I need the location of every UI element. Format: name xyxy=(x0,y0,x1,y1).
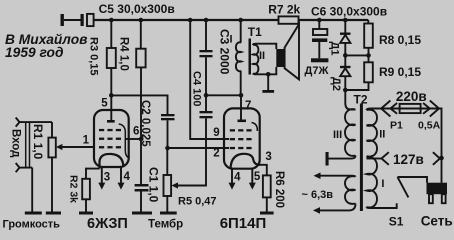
svg-text:C4 100: C4 100 xyxy=(191,71,203,106)
svg-text:Сеть: Сеть xyxy=(421,214,453,229)
svg-text:R5 0,47: R5 0,47 xyxy=(178,196,217,208)
svg-text:R7 2k: R7 2k xyxy=(268,2,300,16)
svg-text:III: III xyxy=(333,129,342,141)
svg-text:6: 6 xyxy=(133,125,139,137)
svg-text:R2 3k: R2 3k xyxy=(68,175,80,203)
svg-text:Громкость: Громкость xyxy=(3,218,61,230)
svg-text:I: I xyxy=(381,178,384,190)
svg-text:Т1: Т1 xyxy=(248,25,262,39)
svg-text:Р1: Р1 xyxy=(390,120,403,132)
svg-text:R1 1,0: R1 1,0 xyxy=(31,124,45,160)
svg-text:Т2: Т2 xyxy=(354,93,368,107)
svg-text:R9 0,15: R9 0,15 xyxy=(379,65,421,79)
svg-text:6ЖЗП: 6ЖЗП xyxy=(87,216,128,232)
svg-text:Д1: Д1 xyxy=(329,42,341,56)
svg-text:5: 5 xyxy=(101,98,108,110)
svg-text:С1 1,0: С1 1,0 xyxy=(147,167,161,203)
svg-text:S1: S1 xyxy=(389,215,404,229)
svg-text:9: 9 xyxy=(213,127,219,139)
svg-text:1: 1 xyxy=(83,135,90,147)
svg-text:127в: 127в xyxy=(393,152,424,167)
svg-text:~ 6,3в: ~ 6,3в xyxy=(302,189,334,201)
svg-text:C2 0,025: C2 0,025 xyxy=(139,100,151,147)
svg-text:R4 1,0: R4 1,0 xyxy=(118,37,130,71)
svg-text:II: II xyxy=(379,129,385,141)
svg-text:Тембр: Тембр xyxy=(148,218,183,230)
svg-text:С5 30,0х300в: С5 30,0х300в xyxy=(99,2,175,16)
svg-text:6П14П: 6П14П xyxy=(220,215,267,232)
svg-text:II: II xyxy=(259,50,265,62)
svg-text:R6 200: R6 200 xyxy=(273,171,285,208)
svg-text:7: 7 xyxy=(245,100,251,112)
svg-text:4: 4 xyxy=(124,171,131,183)
svg-text:C3 2000: C3 2000 xyxy=(218,29,232,75)
svg-text:3: 3 xyxy=(104,172,110,184)
svg-text:2: 2 xyxy=(213,147,219,159)
svg-text:R8 0,15: R8 0,15 xyxy=(379,33,421,47)
svg-text:5: 5 xyxy=(254,171,261,183)
svg-text:3: 3 xyxy=(265,151,271,163)
svg-text:1959 год: 1959 год xyxy=(5,45,64,60)
svg-text:R3 0,15: R3 0,15 xyxy=(88,37,100,76)
svg-text:4: 4 xyxy=(234,172,241,184)
svg-text:С6 30,0х300в: С6 30,0х300в xyxy=(311,5,387,19)
svg-text:Вход: Вход xyxy=(10,129,22,158)
svg-text:0,5А: 0,5А xyxy=(418,120,441,132)
svg-text:Д7Ж: Д7Ж xyxy=(305,65,329,77)
svg-text:220в: 220в xyxy=(396,89,427,104)
svg-text:Д2: Д2 xyxy=(330,77,342,91)
